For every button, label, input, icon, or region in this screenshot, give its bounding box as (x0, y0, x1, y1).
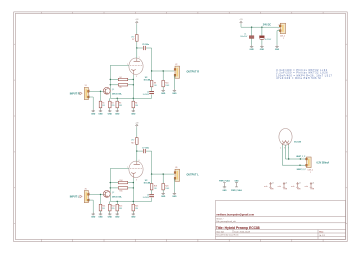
svg-text:a+b: a+b (291, 186, 294, 188)
node grid divider junctions (110, 79, 111, 80)
svg-text:C8: C8 (147, 194, 149, 196)
svg-text:1K0: 1K0 (135, 105, 138, 107)
resistor R4 horizontal (110, 79, 118, 81)
svg-text:3K3: 3K3 (119, 208, 122, 210)
svg-text:GND: GND (115, 113, 120, 115)
wire output gnd (173, 178, 175, 192)
svg-text:1: 1 (139, 57, 140, 59)
svg-text:a+b: a+b (264, 186, 267, 188)
resistor R14 horizontal (110, 182, 118, 184)
svg-text:PWR_FLAG: PWR_FLAG (231, 189, 242, 192)
svg-text:X2: X2 (175, 64, 177, 66)
ground R3 (116, 213, 118, 215)
svg-text:3K3: 3K3 (119, 105, 122, 107)
ground R2 (109, 109, 111, 111)
wire grid (110, 168, 129, 170)
svg-text:HEAT_1_C: HEAT_1_C (296, 155, 306, 158)
svg-text:PWR_FLAG: PWR_FLAG (219, 180, 230, 183)
svg-text:GND: GND (131, 217, 136, 219)
triode V1A ECC88 (129, 58, 143, 74)
svg-text:GND: GND (249, 49, 254, 51)
heater filament symbol (282, 141, 288, 144)
svg-text:GND: GND (223, 190, 228, 192)
ground output (173, 192, 175, 194)
resistor R13 (116, 201, 118, 204)
svg-text:X5: X5 (85, 188, 87, 190)
wire R to plate node (136, 41, 138, 48)
wire to cathode cap (151, 198, 153, 202)
capacitor C7 coupling 100n (143, 149, 145, 153)
wire gate (89, 193, 104, 195)
svg-text:OUTPUT R: OUTPUT R (187, 70, 200, 73)
triode heater V1C ECC88 (279, 129, 292, 146)
ground R4 (132, 109, 134, 111)
svg-text:GND: GND (91, 217, 96, 219)
output connector X6 (175, 169, 180, 181)
svg-text:X6: X6 (175, 167, 177, 169)
wire supply to R plate resistor (136, 127, 138, 138)
node gate junction (100, 91, 101, 92)
svg-text:Q2: Q2 (112, 192, 114, 194)
node grid divider junctions (110, 182, 111, 183)
input connector X5 (84, 191, 88, 203)
frame ticks (40, 12, 42, 14)
resistor R1 gate leak (99, 101, 102, 108)
resistor R18 divider upper (151, 182, 153, 184)
svg-text:220: 220 (112, 208, 115, 210)
node C1 junction (251, 27, 252, 28)
node output junction (151, 70, 152, 71)
wire cathode rail (132, 178, 134, 202)
svg-text:2SK117-BL: 2SK117-BL (112, 197, 123, 199)
node plate junction (136, 47, 137, 48)
resistor R16 cathode lower (132, 201, 134, 204)
wire output (152, 70, 175, 72)
wire cathode rail (132, 75, 134, 99)
capacitor C1 100u (249, 36, 254, 39)
wire left rail (109, 65, 111, 98)
svg-text:24V DC: 24V DC (263, 24, 271, 27)
svg-text:File: preamp.kicad_sch: File: preamp.kicad_sch (216, 220, 235, 223)
svg-text:C7 100n: C7 100n (142, 147, 149, 149)
ground R6 (162, 89, 164, 91)
svg-text:4: 4 (280, 147, 281, 149)
svg-text:Date: 2020-12-08: Date: 2020-12-08 (234, 230, 250, 233)
resistor R17 plate load (136, 138, 139, 145)
wire down to divider (151, 71, 153, 79)
svg-text:Title: Hybrid Preamp ECC88: Title: Hybrid Preamp ECC88 (216, 226, 260, 230)
wire down to divider (151, 174, 153, 182)
svg-text:24V_2: 24V_2 (280, 36, 285, 38)
svg-text:R15: R15 (120, 190, 123, 192)
node gate junction (100, 194, 101, 195)
svg-text:47uF/400 = RiFa PEH 536 SI: 47uF/400 = RiFa PEH 536 SI (276, 78, 321, 80)
capacitor C8 electrolytic (149, 194, 154, 196)
input connector X1 (84, 87, 88, 99)
svg-text:R5: R5 (120, 87, 122, 89)
svg-text:+24: +24 (312, 182, 315, 184)
wire C1 (251, 27, 253, 35)
resistor R5 horizontal (110, 84, 118, 86)
svg-text:2SK117-BL: 2SK117-BL (112, 93, 123, 95)
svg-text:INPUT R: INPUT R (70, 92, 80, 95)
svg-text:R7: R7 (132, 39, 134, 41)
resistor R8 divider upper (151, 79, 153, 81)
svg-text:GND: GND (172, 93, 177, 95)
resistor R7 plate load (136, 35, 139, 42)
svg-text:Size: A4: Size: A4 (216, 230, 224, 233)
connector X3 24V input (280, 23, 285, 33)
ground R6 (162, 192, 164, 194)
svg-text:220: 220 (112, 105, 115, 107)
svg-text:100u/50V: 100u/50V (240, 36, 248, 38)
resistor R2 source (109, 98, 111, 101)
wire supply to R plate resistor (136, 24, 138, 34)
capacitor C5 coupling 100n (143, 46, 145, 50)
node output junction (151, 173, 152, 174)
svg-text:R14: R14 (120, 180, 123, 182)
svg-text:OUTPUT L: OUTPUT L (187, 174, 200, 177)
wire R to cap (151, 87, 153, 91)
svg-text:ECC88: ECC88 (294, 141, 301, 143)
svg-text:Id: 1/1: Id: 1/1 (319, 235, 325, 237)
svg-text:4u7/50V: 4u7/50V (265, 39, 272, 41)
wire plate node to C coupling (137, 150, 143, 152)
ground R1 (100, 109, 102, 111)
svg-text:GND: GND (91, 113, 96, 115)
svg-text:HEAT_2_C: HEAT_2_C (297, 168, 307, 171)
svg-text:6: 6 (139, 160, 140, 162)
ground input (92, 213, 94, 215)
resistor R12 source (109, 201, 111, 204)
ground R2 (109, 213, 111, 215)
svg-text:GND: GND (108, 217, 113, 219)
svg-text:150: 150 (154, 188, 157, 190)
wire plate node to C coupling (137, 47, 143, 49)
wire to cathode cap (151, 95, 153, 99)
svg-text:GND: GND (108, 113, 113, 115)
wire heat1 (286, 158, 307, 160)
capacitor C6 electrolytic (149, 91, 154, 93)
wire 24V bus (240, 24, 242, 27)
title block border (215, 201, 345, 240)
svg-text:150: 150 (154, 85, 157, 87)
svg-text:X1: X1 (85, 85, 87, 87)
wire input ground (89, 199, 94, 201)
svg-text:GND: GND (275, 49, 280, 51)
svg-text:9: 9 (284, 147, 285, 149)
svg-text:Sheet: /: Sheet: / (216, 217, 223, 220)
wire heat2 (282, 164, 306, 166)
wire output (152, 173, 175, 175)
svg-text:2u2/63V: 2u2/63V (143, 197, 150, 199)
svg-text:GND: GND (98, 217, 103, 219)
wire grid (110, 64, 129, 66)
wire heater pins (281, 145, 283, 165)
node plate junction (136, 150, 137, 151)
wire input ground (89, 96, 94, 98)
ground input (92, 109, 94, 111)
wire R to cap (151, 190, 153, 194)
svg-text:ECC88: ECC88 (144, 183, 151, 185)
ground R1 (100, 213, 102, 215)
wire C1 gnd (251, 39, 253, 45)
resistor R20 divider lower (162, 174, 164, 182)
wire gate (89, 90, 104, 92)
svg-text:Q1: Q1 (112, 89, 114, 91)
ground R4 (132, 213, 134, 215)
svg-text:GND: GND (98, 113, 103, 115)
svg-text:1K0: 1K0 (135, 208, 138, 210)
svg-text:6.3V 300mA: 6.3V 300mA (317, 161, 330, 164)
resistor R10 divider lower (162, 71, 164, 79)
resistor R3 (116, 98, 118, 101)
resistor R11 gate leak (99, 204, 102, 211)
wire gate leak (100, 194, 102, 204)
svg-text:Rev:: Rev: (319, 232, 324, 234)
ground R3 (116, 109, 118, 111)
svg-text:ECC88: ECC88 (144, 80, 151, 82)
svg-text:GND: GND (260, 49, 265, 51)
wire C to output node (146, 150, 152, 152)
svg-text:GND: GND (115, 217, 120, 219)
ground output (173, 89, 175, 91)
svg-text:KiCad E.D.A. kicad 9.0.6: KiCad E.D.A. kicad 9.0.6 (216, 234, 239, 237)
jfet Q1 2SK117 (103, 87, 110, 94)
wire source bottom rail (110, 97, 151, 99)
svg-text:emiliano.buonpadre@gmail.com: emiliano.buonpadre@gmail.com (216, 214, 254, 217)
title block rows (215, 215, 345, 217)
svg-text:GND: GND (161, 93, 166, 95)
svg-text:6.3V_2: 6.3V_2 (308, 170, 313, 172)
svg-text:INPUT L: INPUT L (70, 196, 80, 199)
resistor R6 cathode lower (132, 98, 134, 101)
capacitor C2 electrolytic (260, 36, 265, 38)
svg-text:2u2/63V: 2u2/63V (143, 94, 150, 96)
jfet Q2 2SK117 (103, 191, 110, 198)
svg-text:+24: +24 (271, 182, 274, 184)
svg-text:a+b: a+b (278, 186, 281, 188)
wire X3 pin2 gnd (277, 30, 280, 32)
wire R to plate node (136, 144, 138, 151)
resistor R15 horizontal (110, 187, 118, 189)
wire C2 gnd (261, 40, 263, 45)
node C2 junction (261, 27, 262, 28)
svg-text:a+b: a+b (305, 186, 308, 188)
svg-text:C5 100n: C5 100n (142, 44, 149, 46)
svg-text:GND: GND (161, 196, 166, 198)
wire source bottom rail (110, 200, 151, 202)
output connector X2 (175, 66, 180, 78)
svg-text:R4: R4 (120, 77, 122, 79)
title block rev divider (317, 230, 319, 240)
svg-text:+24: +24 (285, 182, 288, 184)
triode V1B ECC88 (129, 161, 143, 177)
svg-text:GND: GND (172, 196, 177, 198)
svg-text:+24: +24 (298, 182, 301, 184)
wire C to output node (146, 47, 152, 49)
svg-text:C6: C6 (147, 91, 149, 93)
connector X4 heater (307, 157, 312, 168)
ground C1 (251, 45, 253, 47)
wire output gnd (173, 75, 175, 89)
ground X3 (276, 45, 278, 47)
svg-text:R17: R17 (131, 142, 134, 144)
svg-text:GND: GND (131, 113, 136, 115)
wire C2 (261, 27, 263, 35)
ground C2 (261, 45, 263, 47)
wire left rail (109, 169, 111, 202)
wire gate leak (100, 91, 102, 101)
